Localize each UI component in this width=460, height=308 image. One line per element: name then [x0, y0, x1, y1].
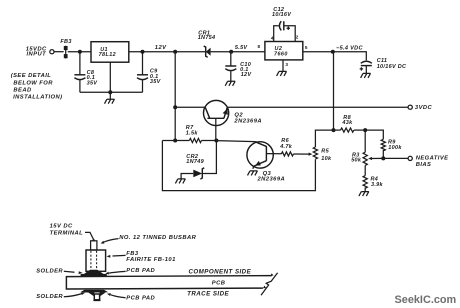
pad and solder on trace side — [80, 290, 108, 293]
svg-text:SOLDER: SOLDER — [36, 294, 63, 300]
PCB board — [66, 276, 271, 289]
leader solder top — [64, 271, 75, 272]
ground at Q3 — [248, 171, 258, 176]
charge pump U2 7660 — [265, 42, 303, 60]
svg-text:8: 8 — [258, 44, 261, 49]
ground under C10 — [225, 81, 235, 86]
svg-text:1.5k: 1.5k — [186, 130, 199, 136]
leader pcb pad top — [109, 271, 126, 273]
ground under R4 — [359, 192, 369, 197]
ground under C11 — [361, 73, 371, 78]
leader terminal — [85, 232, 94, 239]
wire to R9 — [365, 130, 383, 139]
svg-text:5.5V: 5.5V — [235, 45, 249, 51]
svg-text:–5.4 VDC: –5.4 VDC — [336, 46, 363, 52]
hidden busbar edges (dashed) — [90, 251, 92, 270]
svg-text:43k: 43k — [341, 120, 353, 126]
svg-text:35V: 35V — [150, 79, 162, 85]
svg-text:TERMINAL: TERMINAL — [50, 231, 84, 237]
svg-text:3VDC: 3VDC — [415, 105, 433, 111]
svg-text:15V DC: 15V DC — [50, 224, 73, 230]
node NEGATIVE BIAS terminal — [408, 156, 412, 160]
leader busbar — [103, 239, 119, 243]
wire 12V rail down at x175 — [174, 52, 176, 141]
ground under U1 — [105, 99, 115, 104]
node junction Q2 collector — [173, 105, 177, 109]
capacitor C10 — [230, 52, 232, 66]
svg-text:PCB PAD: PCB PAD — [126, 295, 155, 301]
svg-text:BELOW FOR: BELOW FOR — [13, 80, 53, 86]
svg-text:12V: 12V — [241, 72, 253, 78]
svg-text:SOLDER: SOLDER — [36, 269, 63, 275]
solder fillet and pad on component side — [81, 274, 107, 277]
ground at CR2 — [175, 179, 185, 184]
node 3VDC terminal — [408, 105, 412, 109]
wire CR1 to U2 — [211, 51, 265, 53]
regulator U1 78L12 — [91, 42, 129, 63]
board break line — [261, 273, 278, 296]
svg-text:3.9k: 3.9k — [371, 182, 384, 188]
wire U2 pin4 to C12 — [274, 26, 279, 42]
capacitor C9 — [142, 52, 144, 75]
svg-text:5: 5 — [305, 45, 308, 50]
transistor Q3 2N2369A — [247, 142, 273, 168]
svg-text:FAIRITE FB-101: FAIRITE FB-101 — [126, 257, 175, 263]
node junction -5.4V — [331, 50, 335, 54]
node junction U1 ground — [108, 90, 112, 94]
svg-text:2N2369A: 2N2369A — [233, 118, 262, 124]
wire Q2 emitter to 3VDC — [227, 106, 408, 108]
wire Q3 emitter to ground — [252, 166, 255, 169]
svg-text:4.7k: 4.7k — [279, 144, 293, 150]
wire C12 to U2 pin2 — [284, 26, 295, 42]
node junction C8 — [78, 50, 82, 54]
wire R7 row — [162, 140, 189, 142]
wire R7 to Q2 base node — [202, 140, 217, 142]
wire input to bead — [54, 51, 64, 53]
capacitor C8 — [79, 52, 81, 75]
wire U2 pin5 output — [303, 52, 367, 61]
wire U1 ground pin — [109, 62, 111, 99]
svg-text:R5: R5 — [321, 149, 329, 155]
busbar (vertical conductor) — [91, 241, 97, 250]
transistor Q2 2N2369A — [204, 100, 229, 125]
node junction R7 left — [173, 139, 177, 143]
node 15VDC input terminal — [50, 50, 54, 54]
wire Q2 base down — [215, 118, 217, 140]
svg-text:1N749: 1N749 — [186, 159, 204, 165]
wire R6 to R5 wiper arrow — [294, 153, 310, 155]
svg-text:FB3: FB3 — [60, 39, 71, 45]
svg-text:SeekIC.com: SeekIC.com — [395, 294, 457, 306]
wire U1 output 12V rail — [129, 51, 205, 53]
leader pcb pad bottom — [110, 295, 125, 298]
ground under U2 — [277, 71, 287, 76]
svg-text:35V: 35V — [87, 80, 99, 86]
svg-text:10/16V DC: 10/16V DC — [377, 64, 407, 70]
ferrite bead FB3 detail body — [86, 250, 106, 271]
wire -5.4V down to R8 — [333, 52, 335, 130]
svg-text:12V: 12V — [155, 45, 167, 51]
svg-text:TRACE SIDE: TRACE SIDE — [187, 290, 229, 297]
svg-text:10k: 10k — [321, 156, 332, 162]
svg-text:PCB: PCB — [212, 280, 226, 286]
node junction R8 left — [332, 128, 336, 132]
svg-text:INPUT: INPUT — [27, 52, 47, 58]
svg-text:COMPONENT SIDE: COMPONENT SIDE — [189, 269, 252, 276]
wire R5 top to R8 row — [315, 130, 333, 147]
node junction R8 right — [363, 128, 367, 132]
wire to negative bias terminal — [383, 157, 408, 159]
wire to Q2 collector — [175, 106, 205, 108]
svg-text:78L12: 78L12 — [99, 52, 117, 58]
svg-text:2: 2 — [296, 35, 299, 40]
wire C8-C9 bottom rail — [80, 91, 143, 93]
svg-text:BEAD: BEAD — [13, 88, 32, 94]
node junction C9 — [141, 50, 145, 54]
svg-text:(SEE DETAIL: (SEE DETAIL — [11, 73, 52, 79]
node junction x175 on rail — [173, 50, 177, 54]
wire U2 pin3 ground stub — [282, 60, 284, 71]
svg-text:PCB PAD: PCB PAD — [126, 268, 155, 274]
busbar end stub below board — [94, 294, 99, 300]
svg-text:BIAS: BIAS — [416, 162, 432, 168]
wire bead to U1 — [68, 51, 91, 53]
svg-text:50k: 50k — [351, 158, 362, 164]
svg-text:7660: 7660 — [274, 52, 288, 58]
svg-text:1N754: 1N754 — [198, 35, 216, 41]
capacitor C11 — [361, 61, 372, 63]
wire Q3 collector — [216, 141, 256, 142]
svg-text:2N2369A: 2N2369A — [257, 177, 286, 183]
node junction C10 — [229, 50, 233, 54]
svg-text:NEGATIVE: NEGATIVE — [416, 155, 449, 161]
node junction Q2 base — [214, 139, 218, 143]
svg-text:10/16V: 10/16V — [272, 12, 292, 18]
svg-text:INSTALLATION): INSTALLATION) — [13, 95, 62, 101]
svg-text:3: 3 — [285, 62, 288, 67]
wire R3 wiper arrow — [371, 157, 383, 159]
leader solder bottom — [64, 294, 82, 297]
svg-text:100k: 100k — [388, 145, 402, 151]
node junction R9 bottom — [381, 156, 385, 160]
leader FB3 — [113, 254, 126, 257]
svg-text:NO. 12 TINNED BUSBAR: NO. 12 TINNED BUSBAR — [119, 235, 196, 241]
wire Q3 base to R6 — [266, 153, 281, 155]
wire Q2 base node down to CR2 — [203, 141, 217, 174]
wire left loop to bottom rail — [162, 141, 315, 191]
wire CR2 anode to ground — [181, 174, 193, 179]
